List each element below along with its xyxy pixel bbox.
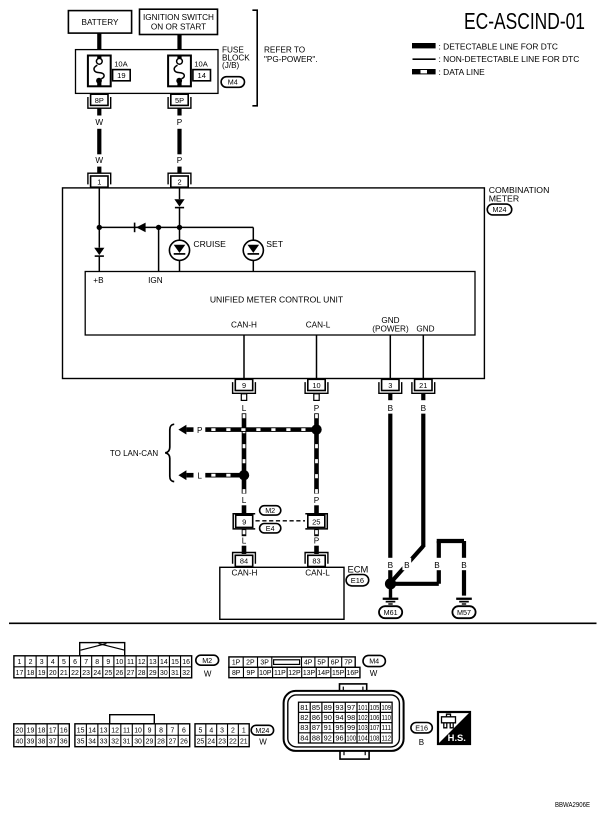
svg-text:SET: SET [266, 239, 283, 249]
inline connector 9 box [236, 515, 253, 527]
connector E16 top tab [340, 684, 367, 694]
battery box [68, 11, 131, 33]
svg-text:7: 7 [84, 659, 88, 666]
node junction at +B branch [97, 225, 102, 230]
svg-text:P: P [177, 118, 183, 127]
connector E16 inner shell [288, 695, 400, 747]
svg-text:M2: M2 [265, 506, 275, 515]
svg-text:28: 28 [157, 739, 165, 746]
svg-text:3P: 3P [260, 660, 269, 667]
legend: non-detectable line sample [413, 58, 436, 60]
connector 5P [168, 97, 191, 108]
node junction at pin2/CRUISE [177, 225, 182, 230]
svg-text:H.S.: H.S. [448, 732, 466, 743]
svg-text:27: 27 [127, 670, 135, 677]
svg-text:21: 21 [419, 381, 427, 390]
wire B down to M57 [462, 541, 466, 596]
svg-text:92: 92 [324, 733, 332, 742]
svg-text:34: 34 [88, 739, 96, 746]
svg-text:1: 1 [242, 727, 246, 734]
svg-text:85: 85 [312, 703, 320, 712]
svg-text:4: 4 [209, 727, 213, 734]
svg-text:: DETECTABLE LINE FOR DTC: : DETECTABLE LINE FOR DTC [439, 41, 558, 51]
connector pin 3 (meter bottom) [379, 382, 402, 393]
svg-text:13P: 13P [303, 670, 316, 677]
svg-text:37: 37 [49, 739, 57, 746]
inline connector 25 bracket [305, 514, 327, 529]
meter connector oval M24 [487, 204, 512, 215]
svg-text:6P: 6P [331, 660, 340, 667]
data line into connector 25 [314, 505, 319, 513]
svg-text:ECM: ECM [348, 563, 369, 574]
svg-text:11: 11 [127, 659, 134, 666]
svg-text:25: 25 [312, 518, 320, 527]
svg-text:BBWA2906E: BBWA2906E [555, 802, 590, 809]
svg-text:P: P [197, 426, 203, 435]
svg-text:5P: 5P [175, 96, 184, 105]
svg-text:83: 83 [300, 723, 308, 732]
svg-text:35: 35 [77, 739, 85, 746]
node junction CAN-H / LAN branch [239, 470, 249, 480]
svg-text:IGN: IGN [148, 276, 163, 285]
data line CAN-H (L wire) upper [242, 413, 247, 493]
svg-text:(J/B): (J/B) [222, 61, 240, 70]
svg-text:112: 112 [381, 733, 391, 742]
svg-text:22: 22 [229, 739, 237, 746]
wire bus to SET lamp [252, 227, 254, 240]
data line CAN-L (P wire) upper [314, 413, 319, 493]
wire diode D3 to +B pin [98, 256, 100, 271]
svg-text:9P: 9P [247, 670, 256, 677]
svg-text:99: 99 [347, 723, 355, 732]
svg-text:W: W [95, 156, 103, 165]
wire IGN branch [158, 227, 160, 271]
svg-text:CRUISE: CRUISE [193, 239, 226, 249]
svg-text:M24: M24 [493, 205, 507, 214]
svg-text:8P: 8P [95, 96, 104, 105]
svg-text:19: 19 [117, 71, 125, 80]
svg-text:33: 33 [100, 739, 108, 746]
svg-text:30: 30 [160, 670, 168, 677]
svg-text:GND: GND [416, 324, 434, 333]
svg-text:10: 10 [116, 659, 124, 666]
connector M2 pin grid [14, 656, 192, 678]
connector E16 oval [411, 723, 432, 733]
data line below connector 25 [314, 529, 319, 536]
svg-text:19: 19 [38, 670, 46, 677]
svg-text:W: W [259, 738, 267, 747]
svg-text:REFER TO: REFER TO [264, 45, 305, 54]
svg-text:95: 95 [335, 723, 343, 732]
svg-text:30: 30 [134, 739, 142, 746]
connector 1 (meter top) [88, 173, 111, 184]
arrow to LAN-CAN (P) [178, 425, 186, 435]
svg-text:21: 21 [60, 670, 68, 677]
svg-text:38: 38 [38, 739, 46, 746]
svg-text:101: 101 [358, 703, 368, 712]
svg-text:: DATA LINE: : DATA LINE [439, 67, 486, 77]
wire SET lamp to control unit [252, 260, 254, 271]
svg-text:9: 9 [242, 518, 246, 527]
wire P segment [177, 167, 181, 174]
svg-text:METER: METER [489, 194, 519, 204]
wire battery to fuse block (thick W) [97, 33, 101, 50]
connector pin 84 (ECM top) [233, 553, 256, 564]
svg-text:10P: 10P [259, 670, 272, 677]
wire B diagonal to junction [391, 546, 424, 583]
svg-text:8: 8 [95, 659, 99, 666]
fuse 19 rectangle [88, 56, 111, 87]
svg-text:6: 6 [73, 659, 77, 666]
H.S. data link connector icon [438, 712, 470, 744]
svg-text:L: L [242, 404, 247, 413]
svg-text:: NON-DETECTABLE LINE FOR DTC: : NON-DETECTABLE LINE FOR DTC [439, 54, 580, 64]
svg-text:M61: M61 [384, 608, 398, 617]
svg-text:7P: 7P [344, 660, 353, 667]
svg-text:15: 15 [77, 727, 85, 734]
connector E16 bottom tab [340, 749, 369, 760]
svg-text:27: 27 [169, 739, 177, 746]
fuse block connector oval M4 [221, 77, 244, 88]
wire ignition to fuse block (thick) [177, 35, 181, 51]
svg-text:CAN-L: CAN-L [305, 568, 330, 577]
svg-text:111: 111 [381, 723, 391, 732]
connector M4 oval [363, 655, 385, 666]
svg-text:10A: 10A [194, 59, 208, 68]
connector 2 (meter top) [168, 173, 191, 184]
svg-text:4: 4 [51, 659, 55, 666]
svg-text:16: 16 [60, 727, 68, 734]
wire from pin 2 [179, 188, 181, 199]
svg-text:32: 32 [111, 739, 119, 746]
svg-text:29: 29 [149, 670, 157, 677]
svg-text:23: 23 [82, 670, 90, 677]
wire CRUISE lamp to control unit [179, 260, 181, 271]
svg-text:2: 2 [29, 659, 33, 666]
svg-text:19: 19 [27, 727, 35, 734]
svg-text:91: 91 [324, 723, 332, 732]
arrow to LAN-CAN (L) [178, 470, 186, 480]
ECM box [220, 567, 344, 619]
svg-text:106: 106 [370, 713, 380, 722]
data line below connector 9 [242, 529, 247, 536]
connector pin 83 (ECM top) [305, 553, 328, 564]
wire GND(POWER) to pin 3 [389, 335, 391, 379]
svg-text:17: 17 [49, 727, 57, 734]
svg-text:W: W [204, 669, 212, 678]
svg-text:E16: E16 [351, 576, 364, 585]
wire bus to +B diode [98, 227, 100, 247]
wire bus to CRUISE lamp [179, 227, 181, 240]
svg-text:18: 18 [38, 727, 46, 734]
svg-text:14: 14 [88, 727, 96, 734]
svg-text:IGNITION SWITCH: IGNITION SWITCH [143, 13, 214, 22]
svg-text:29: 29 [146, 739, 154, 746]
node junction IGN branch [156, 225, 161, 230]
svg-text:22: 22 [71, 670, 79, 677]
svg-text:84: 84 [240, 557, 248, 566]
svg-text:P: P [314, 404, 320, 413]
svg-text:25: 25 [197, 739, 205, 746]
diode D2 (pointing down, from pin 2) [174, 199, 184, 206]
fuse 19 element [97, 56, 101, 59]
connector M4 pin grid [229, 657, 355, 667]
ground symbol M61 [383, 598, 399, 600]
svg-text:24: 24 [93, 670, 101, 677]
svg-text:CAN-L: CAN-L [306, 321, 331, 330]
svg-text:84: 84 [300, 733, 308, 742]
wire color B label [386, 558, 395, 570]
svg-text:B: B [388, 404, 394, 413]
combination meter box [63, 188, 485, 379]
svg-text:1: 1 [97, 177, 101, 186]
svg-text:B: B [404, 561, 410, 570]
svg-text:L: L [242, 496, 247, 505]
svg-text:P: P [314, 537, 320, 546]
svg-text:L: L [197, 472, 202, 481]
ignition switch box [140, 9, 218, 34]
svg-text:26: 26 [180, 739, 188, 746]
svg-text:(POWER): (POWER) [372, 324, 409, 333]
lamp CRUISE indicator [169, 240, 189, 260]
svg-text:2: 2 [177, 177, 181, 186]
svg-text:ON OR START: ON OR START [151, 23, 206, 32]
svg-text:83: 83 [312, 557, 320, 566]
TO LAN-CAN brace [165, 424, 174, 481]
svg-text:CAN-H: CAN-H [231, 321, 257, 330]
svg-text:28: 28 [138, 670, 146, 677]
fuse number box 14 [193, 70, 211, 81]
fuse block box J/B [76, 50, 219, 94]
connector 8P [88, 97, 111, 108]
wire B from pin 21 [421, 414, 425, 547]
svg-text:13: 13 [149, 659, 157, 666]
svg-text:4P: 4P [304, 660, 313, 667]
data line into connector 9 [242, 505, 247, 513]
svg-text:86: 86 [312, 713, 320, 722]
svg-text:1P: 1P [232, 660, 241, 667]
svg-text:E16: E16 [415, 723, 428, 732]
connector M24 keying tab [110, 715, 155, 724]
svg-text:BATTERY: BATTERY [81, 18, 119, 27]
wire color B label [433, 558, 442, 570]
fuse 14 element [177, 56, 181, 59]
svg-text:81: 81 [300, 703, 308, 712]
dashed link between connectors [256, 520, 306, 522]
svg-text:88: 88 [312, 733, 320, 742]
wire P segment [177, 108, 181, 115]
svg-text:23: 23 [218, 739, 226, 746]
svg-text:90: 90 [324, 713, 332, 722]
data line branch P to LAN-CAN [205, 427, 316, 432]
wire CAN-L to pin 10 [316, 335, 318, 379]
svg-text:97: 97 [347, 703, 355, 712]
svg-text:16: 16 [182, 659, 190, 666]
svg-text:8: 8 [159, 727, 163, 734]
wire W segment [97, 129, 101, 155]
svg-text:7: 7 [171, 727, 175, 734]
connector pin 21 (meter bottom) [412, 382, 435, 393]
svg-text:UNIFIED METER CONTROL UNIT: UNIFIED METER CONTROL UNIT [210, 294, 344, 304]
svg-text:6: 6 [182, 727, 186, 734]
svg-text:10: 10 [134, 727, 142, 734]
connector M24 oval [251, 725, 273, 735]
svg-text:EC-ASCIND-01: EC-ASCIND-01 [464, 8, 585, 34]
node ground junction [385, 578, 396, 589]
svg-text:32: 32 [182, 670, 190, 677]
svg-text:96: 96 [335, 733, 343, 742]
legend: data line sample [412, 69, 436, 74]
svg-text:98: 98 [347, 713, 355, 722]
wire diode D2 to bus [179, 208, 181, 228]
svg-text:5: 5 [198, 727, 202, 734]
wire B junction to right riser [391, 582, 439, 586]
connector M2 keying tab [80, 643, 125, 656]
wire junction to ground M61 [389, 584, 392, 598]
svg-text:CAN-H: CAN-H [232, 568, 258, 577]
svg-text:109: 109 [381, 703, 391, 712]
svg-text:M57: M57 [457, 608, 471, 617]
svg-text:100: 100 [346, 733, 356, 742]
svg-text:3: 3 [388, 381, 392, 390]
inline connector 25 box [308, 515, 325, 527]
wire CAN-H to pin 9 [243, 335, 245, 379]
svg-text:108: 108 [370, 733, 380, 742]
svg-text:E4: E4 [266, 524, 275, 533]
connector E16 outer shell [284, 691, 404, 751]
svg-text:M4: M4 [228, 78, 238, 87]
ECM connector oval E16 [346, 575, 369, 586]
svg-text:M2: M2 [202, 656, 212, 665]
data line branch L to LAN-CAN [205, 473, 244, 478]
svg-text:1: 1 [18, 659, 22, 666]
lamp SET indicator [243, 240, 263, 260]
svg-text:105: 105 [370, 703, 380, 712]
wire B right riser [437, 541, 441, 584]
wire W segment [97, 167, 101, 174]
svg-text:13: 13 [100, 727, 108, 734]
svg-text:12: 12 [111, 727, 119, 734]
svg-text:31: 31 [123, 739, 131, 746]
wire color B label [402, 558, 411, 570]
svg-text:16P: 16P [347, 670, 360, 677]
svg-text:103: 103 [358, 723, 368, 732]
connector M24 pin grid [14, 724, 70, 747]
wire GND to pin 21 [422, 335, 424, 379]
svg-text:107: 107 [370, 723, 380, 732]
fuse 14 rectangle [168, 56, 191, 87]
ground oval M57 [452, 606, 475, 618]
svg-text:B: B [419, 738, 424, 747]
svg-text:110: 110 [381, 713, 391, 722]
node junction CAN-L / LAN branch [311, 424, 321, 434]
svg-text:W: W [95, 118, 103, 127]
svg-text:5: 5 [62, 659, 66, 666]
refer-to bracket [252, 10, 257, 106]
svg-text:94: 94 [335, 713, 343, 722]
svg-text:102: 102 [358, 713, 368, 722]
svg-text:10: 10 [312, 381, 320, 390]
legend: detectable line sample [412, 43, 436, 48]
svg-text:M4: M4 [369, 657, 379, 666]
svg-text:36: 36 [60, 739, 68, 746]
svg-text:P: P [177, 156, 183, 165]
ground symbol M57 [456, 598, 472, 600]
ground oval M61 [379, 606, 402, 618]
svg-text:12P: 12P [288, 670, 301, 677]
separator line [9, 622, 597, 624]
horizontal bus wire [99, 226, 253, 228]
svg-text:20: 20 [49, 670, 57, 677]
svg-text:9: 9 [242, 381, 246, 390]
svg-text:+B: +B [93, 276, 104, 285]
svg-text:104: 104 [358, 733, 368, 742]
svg-text:21: 21 [240, 739, 248, 746]
wire color B label [460, 558, 469, 570]
svg-text:L: L [242, 537, 247, 546]
svg-text:20: 20 [16, 727, 24, 734]
svg-text:2P: 2P [246, 660, 255, 667]
svg-text:31: 31 [171, 670, 179, 677]
svg-text:B: B [434, 561, 440, 570]
svg-text:82: 82 [300, 713, 308, 722]
svg-text:93: 93 [335, 703, 343, 712]
connector E16 pin grid [299, 702, 393, 743]
svg-text:11: 11 [123, 727, 130, 734]
wire W segment [97, 108, 101, 115]
inline connector 9 bracket [233, 514, 255, 529]
svg-text:12: 12 [138, 659, 146, 666]
svg-text:26: 26 [116, 670, 124, 677]
svg-text:14: 14 [197, 71, 205, 80]
connector M2 oval [196, 655, 219, 665]
svg-text:18: 18 [27, 670, 35, 677]
fuse number box 19 [113, 70, 131, 81]
data line to ECM pin 83 [314, 546, 319, 554]
svg-text:24: 24 [207, 739, 215, 746]
svg-text:5P: 5P [317, 660, 326, 667]
svg-text:14P: 14P [317, 670, 330, 677]
svg-text:89: 89 [324, 703, 332, 712]
svg-text:10A: 10A [114, 59, 128, 68]
svg-text:M24: M24 [255, 726, 269, 735]
wire B top jog [437, 539, 464, 543]
svg-text:3: 3 [220, 727, 224, 734]
svg-text:B: B [388, 561, 394, 570]
diode D1 (pointing left on bus) [134, 223, 136, 233]
svg-text:17: 17 [16, 670, 24, 677]
svg-text:11P: 11P [274, 670, 286, 677]
svg-text:39: 39 [27, 739, 35, 746]
wire P segment [177, 129, 181, 155]
svg-text:W: W [370, 669, 378, 678]
unified meter control unit box [85, 272, 475, 336]
data line to ECM pin 84 [242, 546, 247, 554]
svg-text:40: 40 [16, 739, 24, 746]
svg-text:9: 9 [106, 659, 110, 666]
svg-text:B: B [421, 404, 427, 413]
wire from pin 1 [98, 188, 100, 227]
svg-text:15P: 15P [332, 670, 345, 677]
svg-text:9: 9 [148, 727, 152, 734]
svg-text:P: P [314, 496, 320, 505]
svg-text:3: 3 [40, 659, 44, 666]
svg-text:25: 25 [104, 670, 112, 677]
svg-text:8P: 8P [232, 670, 241, 677]
svg-text:B: B [461, 561, 467, 570]
svg-text:"PG-POWER".: "PG-POWER". [264, 55, 318, 64]
svg-text:87: 87 [312, 723, 320, 732]
